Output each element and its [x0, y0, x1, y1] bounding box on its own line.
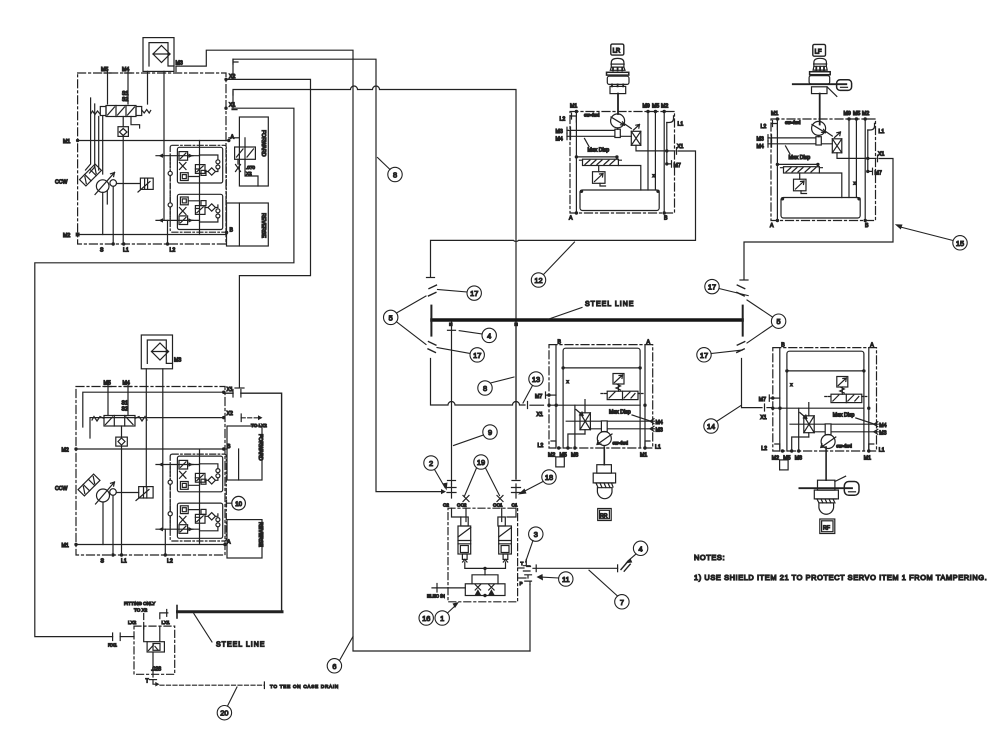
wheel dome [814, 58, 827, 66]
tick RR X1 fitting [527, 402, 529, 409]
wire M2 (P2) [76, 448, 224, 450]
wire CV1 down to M1 [122, 136, 124, 140]
charge pump circle [110, 180, 117, 187]
svg-text:LF: LF [815, 49, 822, 55]
svg-text:17: 17 [473, 351, 481, 360]
wire C1 drop from steel line [515, 322, 517, 479]
cartridge SC2 tail [462, 554, 467, 559]
tick bottom X1 port [232, 390, 234, 398]
motor LF module [757, 111, 885, 229]
wire V1 to CV1 [122, 117, 124, 127]
svg-text:LX1: LX1 [162, 620, 171, 625]
wheel skirt nubs [613, 68, 622, 71]
callout 8 lower [478, 381, 492, 395]
wire L2 riser (P2) [164, 529, 166, 555]
steel line right end bar [742, 306, 744, 336]
svg-text:M5: M5 [104, 381, 111, 387]
callout 19 [474, 455, 488, 469]
filter F1 inner line [149, 43, 174, 66]
callout 5 right [771, 314, 785, 328]
wheel dome divider [814, 63, 827, 65]
svg-text:TO TEE ON CASE DRAIN: TO TEE ON CASE DRAIN [270, 684, 339, 689]
svg-text:L1: L1 [121, 559, 127, 565]
wheel LF stack (with brake) [793, 44, 852, 124]
solenoid cartridge SC2 body [458, 526, 471, 554]
FORWARD box (P2) [227, 426, 262, 480]
wire cartridge outputs [465, 562, 506, 568]
wire S port (P2) [112, 495, 114, 555]
connector C2 [447, 484, 456, 498]
svg-text:L1: L1 [123, 248, 129, 254]
orifice valve divider+arrows [237, 147, 254, 159]
wire manifold mid row [472, 575, 498, 584]
case drain dashed line [160, 684, 264, 686]
relief cluster pair [156, 141, 226, 235]
filter inlet wires into pump [148, 71, 165, 220]
svg-text:M3: M3 [174, 358, 181, 364]
label box RR [598, 509, 612, 521]
valve block boundary [448, 508, 518, 602]
wheel skirt nubs [816, 67, 824, 70]
stub TO LX2 dashed [241, 417, 259, 419]
svg-text:11: 11 [562, 575, 570, 584]
cartridge SC1 inner [501, 546, 509, 553]
wire top pump X1 right loop to RX1 [35, 108, 294, 636]
svg-text:15: 15 [956, 239, 964, 248]
callout 7 [615, 595, 629, 609]
tick at 240.9 [240, 390, 242, 398]
cartridge SC1 hatch [499, 528, 512, 544]
wheel dome divider [611, 63, 624, 65]
valve V1 elbow wire [131, 117, 140, 129]
orifice .028 arrow [149, 645, 159, 651]
pump P1 boundary box [78, 73, 226, 244]
callout 2 [424, 456, 438, 470]
node B pump right [225, 231, 228, 234]
svg-text:7: 7 [620, 598, 624, 607]
wheel dome [611, 58, 624, 67]
relief cluster pair (P2) [156, 449, 226, 543]
callout 15 [953, 236, 967, 250]
svg-text:LR: LR [613, 49, 621, 55]
wheel base [597, 465, 612, 473]
solenoid cartridge SC1 body [499, 526, 512, 554]
servo piston lines [145, 178, 148, 189]
filter F2 inner line [147, 340, 172, 363]
svg-text:M2: M2 [63, 233, 70, 239]
wheel flange [607, 72, 629, 75]
wheel dome [819, 503, 834, 514]
lower steel line (thick) to LX1 [178, 610, 283, 613]
wire X1 staircase into valve (P2) [83, 392, 224, 427]
wire T port line to hose right [533, 567, 618, 569]
svg-text:1) USE SHIELD ITEM 21 TO: 1) USE SHIELD ITEM 21 TO PROTECT SERVO I… [694, 573, 987, 582]
node B (P2) [222, 447, 225, 450]
filter F1 screen [153, 53, 170, 55]
filter F2 diamond [152, 343, 169, 360]
wire L2 riser [167, 220, 169, 244]
REVERSE divider [238, 203, 240, 246]
wheel body [809, 76, 830, 84]
callout 17 upper-right [705, 279, 719, 293]
wire charge to servo (P2) [116, 492, 138, 494]
filter F1 box [143, 38, 174, 72]
brake link [827, 87, 837, 97]
brake caliper slot [841, 86, 848, 88]
hose lower-left [428, 342, 436, 353]
node check mid [483, 594, 486, 597]
tick end above bottom X1 [235, 387, 244, 389]
check valve symbol right [489, 585, 494, 596]
T elbow arrow [153, 680, 156, 685]
cartridge SC1 tail [503, 554, 508, 559]
brake caliper [844, 482, 859, 496]
svg-text:C2: C2 [443, 503, 449, 508]
svg-text:REVERSE: REVERSE [260, 213, 266, 238]
wire LX1 into valve [159, 626, 161, 642]
wire C1 entry [507, 508, 516, 517]
svg-text:RF: RF [823, 526, 830, 532]
wheel base [610, 86, 626, 93]
cartridge SC2 inner [460, 546, 468, 553]
svg-text:A: A [227, 540, 231, 546]
port LX2 tick [143, 623, 145, 630]
tick T line start [535, 565, 537, 572]
wheel skirt [610, 67, 625, 70]
wire M1 (P2) [76, 544, 225, 546]
brake rod [799, 487, 852, 489]
wire top pump X2 to valve C2 [226, 59, 441, 491]
tick RX1 right [119, 633, 121, 641]
drain stub [106, 191, 108, 204]
callout 10 leader [227, 500, 232, 506]
valve V1 arrows [108, 107, 135, 115]
node A pump right [227, 139, 230, 142]
callout 8 upper [388, 167, 402, 181]
svg-text:M3: M3 [176, 61, 183, 67]
svg-text:S: S [100, 248, 104, 254]
port M5 tick [104, 72, 111, 74]
svg-text:20: 20 [220, 709, 228, 718]
filter F2 box [141, 335, 172, 369]
svg-text:13: 13 [532, 375, 540, 384]
svg-text:FITTING ONLY: FITTING ONLY [124, 601, 155, 606]
servo piston lines (P2) [144, 487, 147, 498]
wire filter-out top pump to P line [176, 50, 530, 651]
wire C2 entry [452, 508, 461, 517]
wheel shaft [603, 447, 605, 465]
svg-text:B: B [230, 228, 234, 234]
callout 13 [529, 372, 543, 386]
wire charge to servo [117, 183, 141, 185]
port X2 node (P2) [222, 416, 225, 419]
filter F1 diamond [153, 46, 170, 63]
cartridge SC2 tip [463, 559, 467, 562]
control valve V2 body [104, 416, 135, 427]
wire top pump X2 staircase to bottom pump X1 [226, 79, 311, 387]
filter F2 screen [152, 351, 169, 353]
wire fitting to RF X1 port [767, 407, 773, 409]
callout 16 [419, 611, 433, 625]
tick left drop end [427, 277, 435, 279]
port X1 tick [232, 91, 237, 110]
wheel base [818, 480, 835, 490]
wire M1 [78, 140, 229, 142]
svg-text:FORWARD: FORWARD [260, 130, 266, 157]
filter F2 outlet wires into pump [146, 369, 163, 529]
svg-text:X2: X2 [227, 411, 233, 417]
wheel body [607, 76, 629, 84]
brake caliper [837, 80, 852, 91]
check valve symbol left [475, 585, 480, 596]
manual control valve (rotated) [80, 164, 102, 186]
svg-text:18: 18 [545, 473, 553, 482]
port M5 wire (P2) [105, 384, 112, 416]
svg-text:S2: S2 [122, 97, 128, 103]
valve V1 dividers [116, 106, 126, 117]
svg-text:ELEC IN: ELEC IN [427, 594, 445, 599]
charge pump circle (P2) [110, 489, 117, 496]
svg-text:STEEL LINE: STEEL LINE [585, 301, 634, 308]
lower steel line end bar [176, 606, 178, 619]
FORWARD box [239, 117, 268, 186]
wheel dome [597, 488, 612, 499]
tick RX1 left [112, 633, 114, 641]
wheel RF stack (with brake) [799, 447, 859, 534]
motor RF module [759, 343, 887, 470]
port M4 wire [127, 71, 129, 105]
label box RF [820, 519, 835, 534]
svg-text:17: 17 [700, 351, 708, 360]
wire center drop [484, 568, 486, 574]
port X1 node [224, 107, 227, 110]
callout 17 upper-left [467, 286, 481, 300]
callout 10 circle [232, 496, 246, 510]
solenoid SC1 neck [498, 517, 505, 526]
callout 6 [327, 659, 341, 673]
port M4 tick [125, 72, 132, 74]
node S [112, 242, 115, 245]
control valve V1 body [106, 106, 136, 117]
port M3 tick [175, 67, 177, 72]
svg-text:12: 12 [534, 276, 542, 285]
main pump circle (P2) [97, 489, 110, 502]
wire X2 staircase into valve (P2) [90, 418, 224, 438]
wire main pump to M1 (P2) [102, 502, 104, 545]
wire LR X1 loop to steel line left end [431, 151, 696, 277]
connector P [525, 575, 532, 585]
wheel RR stack [593, 447, 615, 521]
check valve CV2 box [116, 437, 128, 446]
wheel shaft [819, 94, 821, 125]
node L2 [166, 242, 169, 245]
motor LR module [556, 104, 684, 222]
hose T line [621, 563, 630, 572]
node M2 (P2) [74, 447, 77, 450]
leader STEEL LINE top [548, 308, 582, 320]
wheel flange hatch [816, 499, 836, 503]
leader to LX2 [143, 614, 145, 620]
wire RX1 to fitting box [120, 636, 134, 638]
wire ELEC IN [432, 587, 465, 589]
callout 9 [483, 425, 497, 439]
wire main pump to M2 [102, 192, 104, 234]
brake caliper slot [849, 491, 856, 493]
manual control valve (P2 rotated) [78, 474, 100, 496]
svg-text:M1: M1 [63, 139, 70, 145]
wire L1 port [122, 141, 124, 245]
callout 1 [435, 611, 449, 625]
wire valve P drop to charge line [529, 585, 531, 652]
node L1 (P2) [120, 553, 123, 556]
svg-text:M4: M4 [123, 381, 130, 387]
svg-text:4: 4 [639, 544, 643, 553]
svg-text:X1: X1 [227, 387, 233, 393]
port X2 tick [233, 59, 238, 64]
svg-text:14: 14 [707, 422, 715, 431]
wheel flange [810, 72, 831, 75]
svg-text:5: 5 [389, 313, 393, 322]
port M4 wire (P2) [125, 384, 132, 416]
wire V2 to CV2 [121, 426, 123, 449]
callout 14 [704, 419, 718, 433]
servo arrow (P2) [136, 490, 149, 501]
valve V2 spring left [92, 417, 104, 422]
pump P2 boundary box [76, 387, 225, 556]
wire L1 port (P2) [121, 449, 123, 555]
svg-text:1: 1 [440, 614, 444, 623]
callout 17 lower-left [470, 348, 484, 362]
svg-text:REVERSE: REVERSE [257, 522, 263, 547]
junction square steel line at C1 drop [514, 322, 518, 326]
port M5 wire [107, 71, 109, 105]
svg-text:X2: X2 [246, 171, 252, 176]
callout 18 [542, 470, 556, 484]
wire fitting to RR X1 port [530, 404, 544, 406]
callout 4 upper [482, 328, 496, 342]
brake rod [793, 83, 847, 85]
wire bottom pump X1 to lower steel line [224, 393, 282, 612]
servo cylinder (P2) [139, 487, 153, 498]
tick above C2 connector [448, 480, 456, 482]
valve V1 end cap left [100, 107, 106, 116]
callout 4 lower [633, 541, 647, 555]
callout 3 [529, 527, 543, 541]
cartridge SC2 hatch [458, 528, 471, 544]
plug X mark OC2 [463, 496, 469, 502]
svg-text:L2: L2 [167, 559, 173, 565]
wire steel line drop to C2 connector [451, 322, 453, 484]
valve V2 dividers+arrows [106, 416, 134, 427]
valve V2 spring right [135, 417, 147, 422]
svg-text:RX1: RX1 [108, 643, 117, 648]
servo arrow [138, 182, 150, 193]
svg-text:STEEL LINE: STEEL LINE [216, 642, 265, 649]
tick RF X1 fitting [764, 404, 766, 411]
svg-text:19: 19 [477, 458, 485, 467]
wheel skirt [813, 66, 827, 70]
tick C1 drop end [512, 480, 520, 482]
orifice valve .028 body [147, 642, 164, 652]
wire LX2 into valve [144, 626, 147, 642]
wire B to FORWARD (P2) [224, 448, 227, 450]
svg-text:X1: X1 [229, 103, 235, 109]
orifice valve .070 body [235, 147, 256, 159]
brake link [835, 476, 846, 481]
svg-text:17: 17 [708, 283, 716, 292]
node L1 [122, 242, 125, 245]
callout 11 [559, 572, 573, 586]
wire LF X1 loop to steel line right end [744, 159, 893, 280]
label box LR [611, 44, 624, 55]
main pump circle [96, 180, 109, 193]
svg-text:C1: C1 [512, 503, 518, 508]
wire S port [112, 186, 114, 244]
svg-text:8: 8 [393, 171, 397, 180]
junction square steel line at C2 drop [449, 322, 453, 326]
fitting block boundary [134, 626, 175, 674]
valve V1 end cap right [136, 107, 142, 116]
connector C1 [512, 484, 521, 498]
callout 20 [217, 706, 231, 720]
displacement arrow (P2) [96, 482, 115, 504]
wheel flange hatch [595, 483, 614, 488]
node manifold center [483, 567, 486, 570]
svg-text:S2: S2 [122, 407, 128, 413]
svg-text:CCW: CCW [55, 180, 67, 186]
svg-text:RR: RR [600, 514, 608, 520]
wheel shaft [825, 447, 827, 480]
svg-text:16: 16 [422, 614, 430, 623]
check valve CV1 box [118, 127, 128, 137]
pilot wires to CCW pump [86, 98, 103, 174]
port X1 node (P2) [222, 391, 225, 394]
wheel shaft [617, 94, 619, 114]
wire valve to A line [238, 138, 258, 186]
hose upper-left [429, 285, 437, 296]
node A (P2) [223, 543, 226, 546]
svg-text:M2: M2 [62, 448, 69, 454]
svg-text:3: 3 [534, 530, 538, 539]
svg-text:FORWARD: FORWARD [257, 434, 263, 461]
hose upper-right [737, 285, 745, 296]
wire steel line left to RR X1 (hops at 451.5,516) [431, 359, 526, 406]
connector T [523, 566, 530, 571]
check box bottom [465, 584, 505, 596]
wire OC1 entry [501, 508, 503, 521]
callout 5 left [384, 310, 398, 324]
port X2 stub tick (P2) [240, 414, 242, 422]
REVERSE box [227, 203, 269, 246]
arrowhead into C2 [441, 489, 446, 494]
wire valve to T [152, 652, 154, 677]
svg-text:9: 9 [488, 428, 492, 437]
orifice .028 inner [153, 644, 160, 651]
wheel body nubs [612, 84, 623, 86]
cartridge SC1 tip [503, 559, 507, 562]
svg-text:5: 5 [777, 317, 781, 326]
tick right drop end [740, 279, 748, 281]
svg-text:M1: M1 [62, 543, 69, 549]
wire M2 [78, 234, 227, 236]
svg-text:CCW: CCW [55, 486, 67, 492]
svg-text:OC1: OC1 [493, 503, 503, 508]
steel line (thick) [432, 318, 742, 322]
orifice X symbol [236, 165, 241, 172]
displacement arrow through pumps [95, 173, 115, 195]
label box LF [813, 44, 826, 56]
motor RR module [535, 340, 663, 467]
